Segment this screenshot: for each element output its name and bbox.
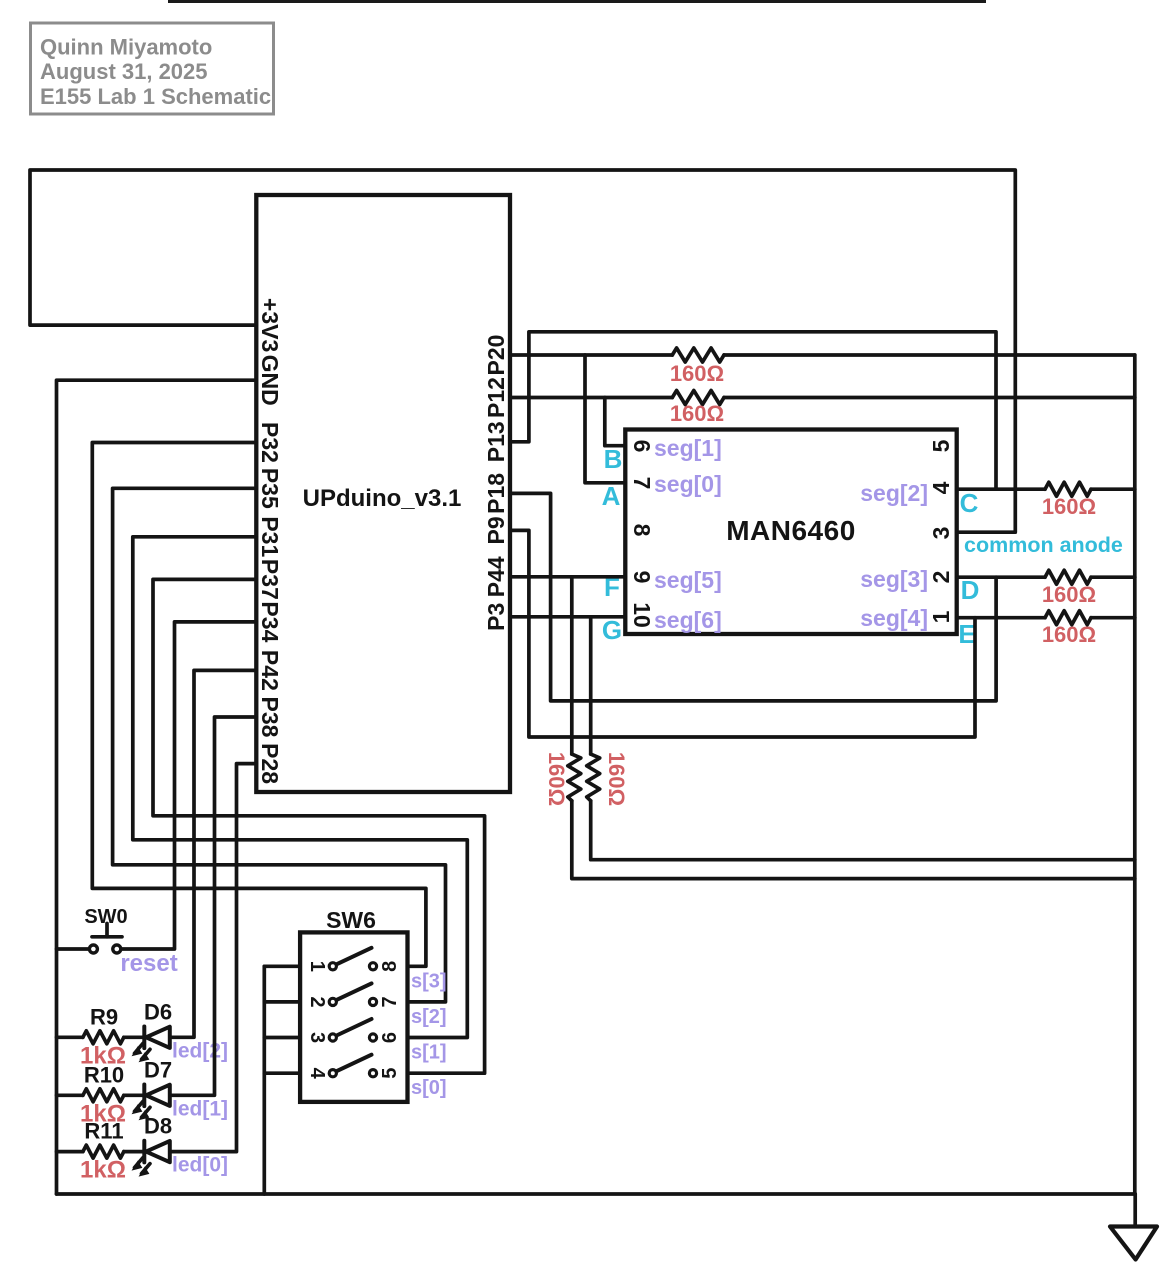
wire node E: display pin 1 to resistor R5 to right bus	[957, 616, 1045, 620]
svg-text:G: G	[602, 615, 622, 645]
svg-text:B: B	[604, 444, 623, 474]
svg-text:D: D	[961, 575, 980, 605]
svg-text:4: 4	[306, 1068, 328, 1080]
wire right vertical bus (resistor returns to ground)	[1133, 355, 1137, 1194]
svg-text:P35: P35	[257, 468, 283, 509]
svg-text:8: 8	[629, 524, 655, 537]
svg-text:160Ω: 160Ω	[1042, 582, 1096, 607]
svg-text:160Ω: 160Ω	[604, 752, 629, 806]
wire P32 to SW6 pin 8 (s[3])	[92, 443, 426, 967]
wire P28 down to LED D8 anode	[170, 764, 256, 1152]
wire GND: UPduino GND pin to left ground bus	[57, 380, 257, 1194]
svg-text:P3: P3	[483, 603, 509, 631]
svg-text:s[3]: s[3]	[411, 970, 447, 992]
wire SW6 pin 3 stub	[264, 1036, 300, 1040]
svg-text:7: 7	[629, 477, 655, 490]
wire resistor R10 to LED D7 cathode	[124, 1093, 145, 1097]
SW6 switch element 4-5	[329, 1055, 376, 1077]
wire SW6 left pins common bus to ground wire	[262, 966, 266, 1194]
svg-text:P13: P13	[483, 421, 509, 462]
svg-text:1kΩ: 1kΩ	[80, 1157, 126, 1184]
wire SW6 pin 4 stub	[264, 1071, 300, 1075]
svg-text:led[0]: led[0]	[172, 1154, 228, 1177]
wire P18 under display to node D (pin 2)	[510, 493, 996, 701]
svg-text:Quinn Miyamoto: Quinn Miyamoto	[40, 35, 212, 60]
wire ground bus to resistor R10	[57, 1093, 83, 1097]
svg-text:8: 8	[379, 961, 401, 972]
resistor R10 1k	[83, 1089, 124, 1102]
wire node B: P12 wire down to display pin 6	[605, 398, 626, 446]
svg-text:160Ω: 160Ω	[1042, 622, 1096, 647]
svg-text:1: 1	[306, 961, 328, 972]
wire node G branch down to resistor R7	[589, 617, 593, 754]
svg-text:UPduino_v3.1: UPduino_v3.1	[303, 485, 462, 512]
DIP switch SW6 body	[300, 907, 407, 1102]
svg-text:P20: P20	[483, 335, 509, 376]
wire resistor R9 to LED D6 cathode	[124, 1035, 145, 1039]
svg-text:P31: P31	[257, 516, 283, 557]
svg-text:MAN6460: MAN6460	[726, 515, 856, 546]
ground symbol stem	[1133, 1194, 1137, 1227]
svg-text:2: 2	[306, 996, 328, 1007]
svg-text:s[2]: s[2]	[411, 1006, 447, 1028]
svg-text:P18: P18	[483, 473, 509, 514]
wire node A: P20 wire down to display pin 7	[585, 355, 625, 483]
wire ground bus to resistor R9	[57, 1035, 83, 1039]
wire P12 to resistor R2 and right bus	[510, 396, 672, 400]
svg-text:P42: P42	[257, 650, 283, 691]
LED D7	[133, 1085, 170, 1120]
wire P13 over display to node C (pin 4)	[510, 332, 996, 489]
svg-text:led[1]: led[1]	[172, 1097, 228, 1120]
svg-text:6: 6	[379, 1032, 401, 1043]
wire +3V3 rail: UPduino +3V3 pin up over top to display pin 3 (common anode)	[30, 170, 1015, 532]
svg-text:C: C	[960, 488, 979, 518]
LED D6	[133, 1027, 170, 1062]
svg-text:5: 5	[928, 439, 954, 452]
svg-text:3: 3	[306, 1032, 328, 1043]
svg-text:5: 5	[379, 1068, 401, 1079]
svg-text:160Ω: 160Ω	[1042, 494, 1096, 519]
LED D8	[133, 1141, 170, 1176]
wire SW6 pin 2 stub	[264, 1000, 300, 1004]
svg-text:160Ω: 160Ω	[670, 361, 724, 386]
wire P38 down to LED D7 anode	[170, 717, 256, 1095]
svg-text:seg[5]: seg[5]	[654, 567, 722, 593]
svg-text:1: 1	[928, 610, 954, 623]
svg-text:D8: D8	[144, 1114, 172, 1139]
svg-text:+3V3: +3V3	[257, 298, 283, 352]
svg-text:SW6: SW6	[326, 907, 376, 933]
svg-text:P34: P34	[257, 601, 283, 642]
svg-text:D7: D7	[144, 1057, 172, 1082]
SW6 switch element 1-8	[329, 948, 376, 970]
pushbutton SW0	[84, 906, 127, 953]
svg-text:3: 3	[928, 527, 954, 540]
svg-text:P9: P9	[483, 516, 509, 544]
resistor R6 160ohm (vertical)	[568, 754, 581, 801]
svg-text:7: 7	[379, 996, 401, 1007]
top screen edge bar	[168, 0, 986, 3]
SW6 switch element 2-7	[329, 983, 376, 1005]
SW6 switch element 3-6	[329, 1019, 376, 1041]
wire ground bus to SW0 left terminal	[57, 947, 90, 951]
title block	[31, 23, 274, 114]
svg-text:seg[0]: seg[0]	[654, 471, 722, 497]
svg-text:6: 6	[629, 440, 655, 453]
wire ground bottom bus	[57, 1192, 1136, 1196]
7-segment display MAN6460	[625, 430, 956, 635]
resistor R11 1k	[83, 1145, 124, 1158]
svg-text:E: E	[958, 619, 975, 649]
svg-text:P44: P44	[483, 556, 509, 597]
svg-text:seg[1]: seg[1]	[654, 435, 722, 461]
wire node F branch down to resistor R6	[570, 577, 574, 754]
svg-text:R9: R9	[90, 1004, 118, 1029]
resistor R7 160ohm (vertical)	[587, 754, 600, 801]
svg-text:4: 4	[928, 481, 954, 494]
wire P42 down to LED D6 anode	[170, 670, 256, 1037]
resistor R2 160ohm	[672, 391, 724, 405]
wire P37 to SW6 pin 5 (s[0])	[153, 579, 485, 1073]
svg-text:SW0: SW0	[84, 906, 127, 928]
svg-text:D6: D6	[144, 999, 172, 1024]
svg-text:seg[6]: seg[6]	[654, 607, 722, 633]
svg-text:P12: P12	[483, 377, 509, 418]
svg-text:reset: reset	[120, 950, 177, 977]
wire P34 down to pushbutton SW0	[121, 622, 256, 949]
svg-text:s[0]: s[0]	[411, 1077, 447, 1099]
svg-text:seg[2]: seg[2]	[860, 480, 928, 506]
svg-text:P28: P28	[257, 743, 283, 784]
resistor R4 160ohm	[1045, 570, 1091, 584]
resistor R5 160ohm	[1045, 611, 1091, 625]
svg-text:P37: P37	[257, 559, 283, 600]
wire P35 to SW6 pin 7 (s[2])	[113, 488, 446, 1002]
svg-text:P32: P32	[257, 422, 283, 463]
ground symbol	[1110, 1227, 1157, 1260]
svg-text:GND: GND	[257, 355, 283, 406]
svg-text:seg[3]: seg[3]	[860, 566, 928, 592]
wire resistor R11 to LED D8 cathode	[124, 1150, 145, 1154]
svg-text:160Ω: 160Ω	[544, 752, 569, 806]
wire ground bus to resistor R11	[57, 1150, 83, 1154]
svg-text:August 31, 2025: August 31, 2025	[40, 59, 208, 84]
svg-text:common anode: common anode	[964, 533, 1123, 557]
resistor R1 160ohm	[672, 348, 724, 362]
wire resistor R6 to right bus	[572, 801, 1135, 879]
resistor R9 1k	[83, 1031, 124, 1044]
FPGA board UPduino U1	[256, 195, 510, 792]
wire resistor R7 to right bus	[591, 801, 1135, 860]
wire SW6 pin 1 stub	[264, 964, 300, 968]
svg-text:s[1]: s[1]	[411, 1042, 447, 1064]
wire P20 to resistor R1 and right bus	[510, 353, 672, 357]
svg-text:2: 2	[928, 571, 954, 584]
svg-text:160Ω: 160Ω	[670, 401, 724, 426]
svg-text:R11: R11	[84, 1119, 123, 1144]
svg-text:9: 9	[629, 571, 655, 584]
wire node C: display pin 4 to resistor R3 to right bus	[957, 487, 1045, 491]
svg-text:P38: P38	[257, 697, 283, 738]
svg-text:A: A	[602, 481, 621, 511]
wire P3 to display pin 10 (node G)	[510, 615, 625, 619]
svg-text:seg[4]: seg[4]	[860, 605, 928, 631]
wire P44 to display pin 9 (node F)	[510, 575, 625, 579]
svg-text:R10: R10	[84, 1062, 124, 1087]
svg-text:10: 10	[629, 602, 655, 628]
wire P9 under display to node E (pin 1)	[510, 530, 975, 737]
svg-text:led[2]: led[2]	[172, 1039, 228, 1062]
wire node D: display pin 2 to resistor R4 to right bus	[957, 575, 1045, 579]
resistor R3 160ohm	[1045, 482, 1091, 496]
svg-text:E155 Lab 1 Schematic: E155 Lab 1 Schematic	[40, 84, 271, 109]
wire P31 to SW6 pin 6 (s[1])	[133, 537, 468, 1038]
